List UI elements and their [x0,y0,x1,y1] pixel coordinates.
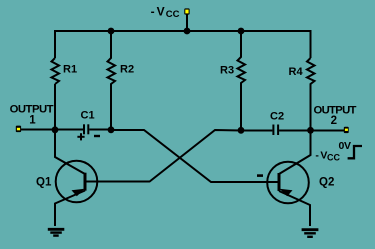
svg-text:2: 2 [331,115,337,127]
terminal output2 [344,127,349,133]
svg-text:Q2: Q2 [319,176,334,188]
wire C1 right [89,129,111,131]
svg-text:-: - [151,5,155,19]
transistor Q2 emitter [279,191,310,226]
wire C2 left [241,130,272,132]
transistor Q1 emitter [55,191,85,227]
transistor Q1 circle [56,161,98,203]
junction node Vcc [184,28,191,35]
wire Q1 collector [55,130,85,174]
terminal output1 [16,126,21,133]
label C1 plus [77,133,84,140]
junction node R2 bottom [108,126,115,133]
resistor R3 [238,31,246,131]
wire C2 right [279,130,310,132]
resistor R4 [307,58,315,131]
capacitor C2 [273,125,278,136]
resistor R1 [52,58,60,84]
junction node R3 top [238,28,245,35]
svg-text:0V: 0V [339,140,351,152]
svg-text:R2: R2 [120,64,134,76]
wire output2 [311,130,345,132]
svg-text:C2: C2 [270,111,284,123]
transistor Q1 base bar [84,173,87,191]
svg-text:-: - [315,150,319,162]
resistor R2 [108,31,116,130]
svg-text:R1: R1 [63,64,77,76]
svg-text:CC: CC [166,9,180,20]
wire output1 [20,129,55,131]
ground Q1 [48,229,65,235]
junction node R2 top [108,28,115,35]
transistor Q2 circle [267,162,309,204]
junction node R3 bottom [238,127,245,134]
wire R1 bottom [54,84,56,130]
wire Q2 base lead [211,181,279,183]
wire C1 left [55,129,83,131]
wire Q2 collector [279,131,311,175]
svg-text:R3: R3 [220,65,234,77]
svg-text:Q1: Q1 [36,176,52,188]
svg-text:1: 1 [29,114,36,126]
waveform step symbol [348,146,362,158]
capacitor C1 [84,124,88,134]
svg-text:V: V [157,5,165,19]
wire top rail [55,31,311,58]
junction node left mid [52,126,59,133]
svg-text:C1: C1 [81,109,95,121]
transistor Q2 base bar [278,173,281,191]
wire cross coupling A [111,130,279,182]
label Q2 minus [257,174,263,177]
wire Q1 base lead [85,181,149,183]
svg-text:CC: CC [327,153,340,163]
wire -Vcc drop [186,14,188,31]
transistor Q1 emitter arrow [72,189,85,196]
svg-text:R4: R4 [289,66,304,78]
transistor Q2 emitter arrow [280,189,293,196]
terminal Vcc [184,8,189,14]
wire cross coupling B [149,130,241,182]
ground Q2 [302,230,319,237]
label C1 minus [94,135,100,137]
junction node R4 mid [307,127,314,134]
